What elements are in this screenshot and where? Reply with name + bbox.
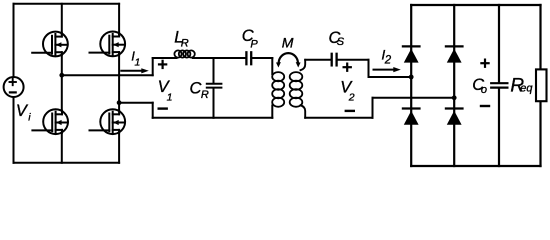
label + of V2	[344, 64, 351, 71]
wire: top wire to L_R	[153, 57, 177, 59]
wire: V2- step up	[372, 98, 374, 118]
svg-text:o: o	[481, 84, 487, 96]
wire: leg B lower (Q4 source to bottom rail)	[118, 133, 120, 163]
wire: inverter left rail upper	[13, 4, 15, 77]
wire: bridge left leg	[410, 5, 412, 166]
wire: L_R to C_P	[193, 57, 245, 59]
wire: C_S to step	[338, 59, 369, 61]
wire: leg B upper (top rail to Q2 drain)	[118, 4, 120, 34]
label + of C_o	[481, 60, 488, 67]
wire: step down	[152, 103, 154, 118]
label - of C_o	[481, 105, 489, 107]
wire: load branch lower	[539, 102, 541, 166]
svg-text:i: i	[28, 112, 31, 124]
svg-text:2: 2	[348, 92, 355, 104]
wire: leg A middle (Q1 source to Q3 drain)	[61, 55, 63, 111]
wire: load branch upper	[539, 5, 541, 69]
arrow: coupling arc	[276, 53, 301, 67]
svg-text:R: R	[201, 89, 209, 101]
resistor R_eq	[536, 69, 547, 101]
svg-text:P: P	[250, 38, 258, 50]
label C_S	[329, 29, 345, 48]
wire: inverter top rail	[14, 3, 120, 5]
svg-text:1: 1	[167, 91, 173, 103]
svg-text:R: R	[181, 38, 189, 50]
node: junction dot leg B output	[117, 100, 122, 105]
capacitor C_o	[491, 83, 507, 87]
wire: rectifier bottom rail	[411, 165, 540, 167]
label Vi	[16, 102, 31, 124]
node: junction dot leg A output	[59, 73, 64, 78]
transistor Q1	[32, 32, 68, 57]
wire: C_o branch lower	[498, 88, 500, 166]
diode D3	[403, 109, 420, 125]
node: junction dot bridge left	[409, 75, 414, 80]
wire: primary bottom wire	[153, 117, 273, 119]
wire: leg B middle (Q2 source to Q4 drain)	[118, 54, 120, 110]
diode D2	[446, 46, 463, 62]
label - of V2	[346, 110, 354, 112]
label R_eq	[510, 75, 533, 96]
label + of V1	[159, 61, 166, 68]
svg-text:C: C	[190, 80, 202, 98]
svg-text:2: 2	[384, 54, 392, 66]
inductor: primary coil loops	[272, 72, 284, 107]
wire: C_P to primary coil	[252, 57, 272, 59]
label V1	[158, 78, 173, 103]
label C_R	[190, 80, 209, 101]
label C_P	[242, 27, 259, 50]
label C_o	[472, 76, 487, 96]
wire: top output from leg A	[62, 74, 153, 76]
source Vi	[4, 77, 24, 97]
svg-text:S: S	[337, 36, 345, 48]
transistor Q3	[32, 109, 68, 134]
inductor: secondary coil loops	[290, 72, 303, 107]
inductor: secondary coil exit	[301, 105, 306, 118]
inductor: secondary coil entry	[301, 60, 306, 70]
wire: V2- to bridge right leg	[373, 97, 455, 99]
wire: inverter left rail lower	[13, 97, 15, 163]
wire: inverter bottom rail	[14, 162, 120, 164]
diode D1	[403, 46, 420, 62]
label I1	[131, 49, 140, 69]
svg-text:V: V	[16, 102, 29, 120]
wire: leg A lower (Q3 source to bottom rail)	[61, 133, 63, 163]
transistor Q2	[90, 32, 126, 57]
arrow I2	[374, 67, 401, 72]
node: junction dot bridge right	[452, 95, 457, 100]
inductor L_R	[174, 50, 194, 57]
label L_R	[174, 29, 188, 50]
wire: rectifier top rail	[411, 4, 540, 6]
wire: C_R branch lower	[213, 88, 215, 117]
capacitor C_P	[246, 52, 251, 64]
wire: C_R branch upper	[213, 58, 215, 83]
wire: bridge right leg	[453, 5, 455, 166]
wire: V2+ to bridge left leg	[369, 76, 412, 78]
svg-text:1: 1	[135, 57, 141, 69]
wire: V2+ step down	[368, 60, 370, 77]
svg-text:M: M	[282, 34, 294, 50]
transistor Q4	[90, 109, 126, 134]
wire: secondary bottom wire	[305, 117, 372, 119]
wire: secondary coil to C_S	[305, 59, 330, 61]
inductor: primary coil entry	[271, 58, 273, 74]
capacitor C_S	[332, 54, 337, 66]
wire: C_o branch upper	[498, 5, 500, 83]
svg-text:eq: eq	[520, 82, 533, 94]
wire: bottom output from leg B	[119, 102, 153, 104]
inductor: primary coil exit	[271, 106, 273, 118]
wire: leg A upper (top rail to Q1 drain)	[61, 4, 63, 34]
label - of V1	[159, 107, 167, 109]
label I2	[381, 47, 391, 67]
arrow I1	[121, 68, 149, 73]
diode D4	[446, 109, 463, 125]
capacitor C_R	[207, 84, 222, 88]
label V2	[340, 78, 355, 103]
wire: step up	[152, 58, 154, 75]
